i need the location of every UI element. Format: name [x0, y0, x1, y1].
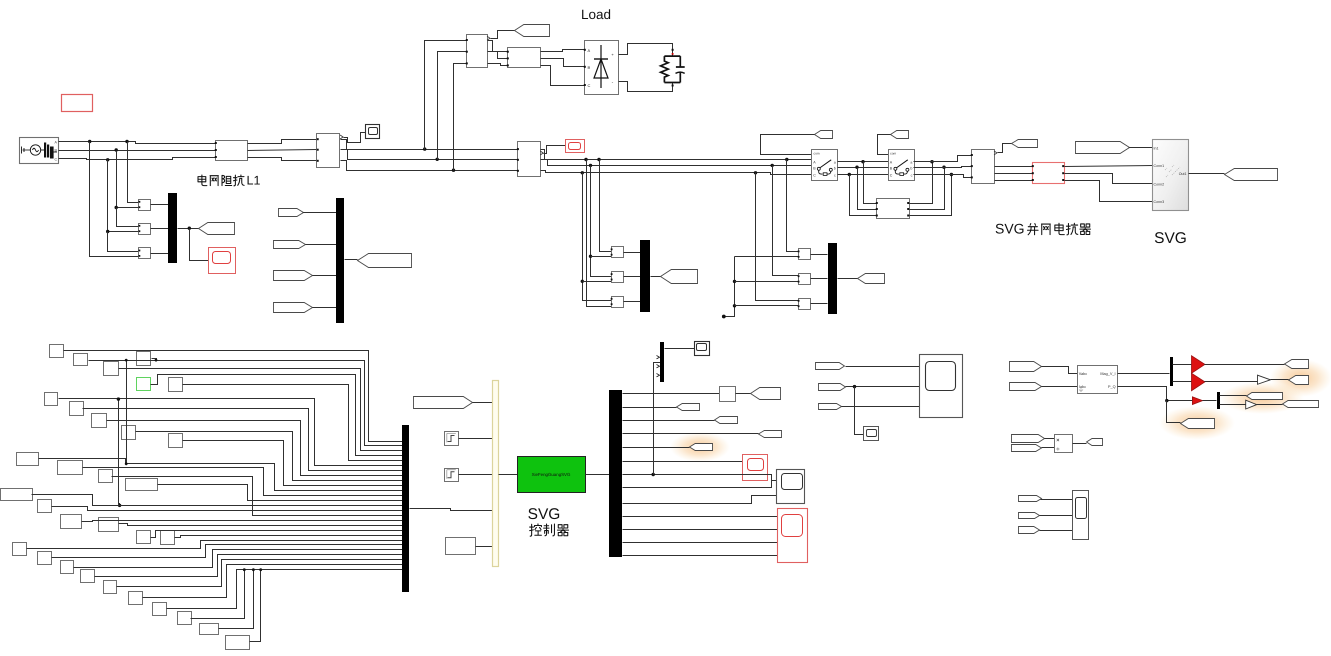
- three-phase V-I measurement block 2: [317, 134, 340, 168]
- wires from tags to mux3: [303, 212, 337, 214]
- wire B31 join bottom row: [250, 570, 261, 642]
- wire taps down to transformer: [864, 162, 877, 204]
- big mux bar (controller inputs): [402, 425, 409, 592]
- wire tap to VM2 group b: [591, 166, 612, 277]
- constant block B28: [153, 603, 167, 616]
- from tag display b: [1019, 513, 1040, 519]
- from tag breaker2 control: [891, 131, 909, 139]
- wires RLC to rectifier B: [541, 59, 585, 67]
- voltage measurement block V2b: [612, 272, 624, 283]
- three-phase V-I measurement block 3: [972, 150, 995, 184]
- wire breaker2 control: [878, 135, 891, 155]
- constant block B31: [226, 636, 250, 650]
- demux row2 wire: [623, 407, 677, 409]
- svg-text:XieFengGuangSVG: XieFengGuangSVG: [532, 472, 571, 477]
- wire from tag to bus bar: [473, 402, 493, 404]
- step source block 2: [445, 469, 459, 482]
- wire P_Q output down to small gain: [1118, 387, 1193, 401]
- highlight glow (orange) behind Goto tag group top-right: [1270, 359, 1331, 397]
- svg-text:a: a: [910, 161, 912, 165]
- wire phase A source to grid impedance: [59, 142, 216, 144]
- goto tag mux4: [858, 274, 885, 284]
- svg-text:A: A: [588, 48, 591, 53]
- constant block B3: [104, 362, 119, 376]
- wire mux2 output to goto tag: [651, 276, 661, 278]
- wire gain2 to white gain: [1205, 381, 1258, 383]
- goto tag gain1: [1285, 360, 1309, 369]
- constant block B20: [137, 531, 151, 544]
- wires VM3 outputs to mux4: [811, 254, 828, 256]
- scope5 (three input): [920, 355, 963, 418]
- wire phase C source to grid impedance: [59, 158, 216, 160]
- voltage measurement block V3c: [799, 299, 811, 310]
- voltage measurement block V2c: [612, 297, 624, 308]
- mini mux above demux: [660, 342, 664, 382]
- wires transformer right up to bus: [910, 162, 933, 204]
- wire step1 to bus: [459, 438, 493, 440]
- wire SVG Out1 to goto tag: [1189, 173, 1225, 175]
- svg-text:C: C: [588, 83, 591, 88]
- load branch V-I measurement block (mid): [518, 142, 541, 177]
- demux rows to red display block: [623, 516, 778, 518]
- wires reactor to SVG subsystem: [1065, 166, 1153, 167]
- scope1 (red): [209, 248, 236, 274]
- goto tag row5 (highlighted): [690, 444, 713, 451]
- wire demux5 to red gain2: [1173, 381, 1192, 383]
- wires VM2 outputs to mux2: [624, 252, 641, 254]
- wire rectifier + to RC load: [619, 44, 673, 57]
- svg-text:P_Q: P_Q: [1108, 385, 1116, 389]
- goto tag row1: [751, 388, 781, 400]
- from tag divide b: [1012, 445, 1042, 452]
- wires RLC to rectifier C: [541, 66, 585, 86]
- wire from tag to SVG In1: [1129, 147, 1153, 149]
- wire big mux output to signal bus: [410, 509, 493, 511]
- stub from B4 joining row2: [152, 359, 157, 361]
- goto tag row2: [677, 404, 700, 411]
- constant block B22: [13, 543, 27, 556]
- mux1 bar: [168, 193, 177, 263]
- highlight glow behind demux row5 tag: [670, 432, 730, 462]
- red gain triangle 1: [1192, 356, 1205, 374]
- breaker block 2: [889, 150, 915, 181]
- red annotation rectangle top-left: [62, 95, 93, 112]
- wires breaker1 to breaker2: [838, 161, 889, 163]
- wire mini mux to scope small: [665, 348, 695, 350]
- main bus wires to breaker1: [541, 150, 812, 160]
- scope white two-input: [777, 470, 805, 504]
- from tag scope5 c: [819, 404, 842, 410]
- constant block B18: [61, 515, 82, 529]
- wire gain1 to goto tag: [1205, 364, 1285, 366]
- svg-text:L1: L1: [247, 174, 261, 188]
- constant block B11: [169, 434, 183, 448]
- goto tag row1 demux6 (highlighted): [1247, 393, 1283, 400]
- white gain triangle 2: [1246, 400, 1257, 409]
- highlight glow behind gain/tag row 3: [1220, 382, 1304, 414]
- demux row7 wire with riser to mini mux: [623, 475, 777, 481]
- goto tag P_Q bottom (highlighted): [1181, 419, 1215, 429]
- wire B29 join bottom row: [191, 570, 245, 619]
- constant block controller: [446, 538, 476, 555]
- scope small (top of demux area): [695, 342, 710, 356]
- red gain triangle 2: [1192, 373, 1205, 391]
- svg-text:com: com: [890, 152, 896, 156]
- wire meas3 to goto tag: [998, 144, 1012, 153]
- svg-text:SVG: SVG: [1154, 230, 1187, 247]
- constant block B13: [58, 461, 83, 475]
- demux row5 wire: [623, 447, 690, 449]
- wires grid impedance to measurement2: [248, 140, 317, 144]
- goto tag row3: [715, 417, 738, 424]
- from tag controller input: [414, 397, 473, 409]
- goto tag divide: [1087, 439, 1103, 446]
- wire to red display: [544, 146, 566, 154]
- wire tap up to load measurement B: [438, 52, 467, 160]
- svg-text:b: b: [910, 167, 912, 171]
- svg-text:Conn3: Conn3: [1154, 200, 1165, 204]
- constant block B23: [38, 552, 52, 565]
- from tag group feeding mux3 (left of centre): [279, 209, 304, 217]
- diode rectifier block: [585, 41, 619, 95]
- wire to scope1: [190, 229, 209, 261]
- wire tap up to load measurement C: [454, 64, 467, 171]
- goto tag meas3: [1012, 140, 1038, 148]
- wire mux3 output: [345, 259, 358, 261]
- secondary net for VM3 trio: [735, 256, 799, 258]
- wires to display block: [1041, 499, 1073, 501]
- constant block B1: [50, 345, 64, 358]
- constant block B2: [74, 354, 88, 366]
- wire breaker1 control: [761, 135, 815, 155]
- demux6 thin bar: [1217, 392, 1220, 409]
- wire green block B5g row: [151, 375, 403, 456]
- goto tag load meas: [515, 25, 550, 37]
- svg-text:Conn1: Conn1: [1154, 164, 1165, 168]
- from tag divide a: [1012, 435, 1045, 443]
- wire white gain to goto tag2: [1271, 379, 1289, 381]
- from tag power block Iabc: [1010, 383, 1042, 391]
- step source block 1: [445, 432, 459, 446]
- wire rectifier - to RC load: [619, 82, 673, 92]
- svg-text:Vabc: Vabc: [1079, 372, 1087, 376]
- wire A tap down outer: [90, 142, 139, 257]
- from tag display c: [1019, 527, 1040, 534]
- wire load meas to goto tag: [491, 31, 515, 39]
- svg-text:Out1: Out1: [1179, 172, 1187, 176]
- wire tap up to load measurement A: [425, 41, 467, 150]
- svg-text:c: c: [834, 174, 836, 178]
- svg-text:com: com: [814, 152, 820, 156]
- voltage measurement block V1b: [139, 224, 151, 235]
- goto tag row4: [759, 431, 782, 438]
- label 电网阻抗L1: [198, 175, 207, 186]
- wire bus B meas2: [341, 150, 518, 160]
- wire divide to goto tag: [1073, 443, 1087, 445]
- demux bar (controller outputs): [609, 390, 622, 557]
- wire P_Q branch down to tag: [1167, 401, 1181, 423]
- constant block B5g: [137, 378, 151, 391]
- goto tag mux3: [358, 254, 412, 268]
- constant block B25: [81, 570, 95, 583]
- wires to divide block: [1045, 438, 1055, 440]
- white gain triangle (row2): [1258, 375, 1271, 384]
- wire tap to VM2 group c: [583, 173, 612, 301]
- svg-text:In1: In1: [1154, 146, 1159, 150]
- wire step2 to bus: [459, 474, 493, 476]
- svg-text:SVG: SVG: [995, 221, 1025, 237]
- goto tag Vabc2: [661, 270, 698, 284]
- wire bus A meas2 to load-tap: [341, 140, 518, 150]
- wires VM outputs to mux1: [151, 204, 169, 206]
- svg-text:b: b: [834, 167, 836, 171]
- junction dots bus to load rectifier branch: [423, 147, 426, 150]
- goto tag Vabc1: [199, 223, 235, 235]
- voltage measurement block V2a: [612, 247, 624, 258]
- from tag scope5 a: [816, 363, 845, 370]
- constant block B16: [1, 489, 33, 501]
- demux row9 wire to scope white p2: [623, 496, 777, 504]
- constant block B6: [169, 378, 183, 392]
- wires constants to big mux (direct rows with small steps): [32, 495, 403, 506]
- wire gain3 to demux6: [1203, 400, 1217, 402]
- mux4 bar: [828, 243, 837, 314]
- signal bus bar (cream): [493, 381, 499, 567]
- demux5 thin bar: [1170, 357, 1173, 386]
- diode symbol: [600, 45, 602, 88]
- SVG grid reactor block (red): [1033, 163, 1065, 184]
- svg-text:a: a: [834, 161, 836, 165]
- wires breaker2 to measurement3: [914, 156, 972, 162]
- constant block B26: [104, 581, 117, 594]
- from tag display a: [1019, 496, 1042, 502]
- voltage measurement block V1a: [139, 200, 151, 211]
- from tag power block Vabc: [1010, 362, 1042, 372]
- display block (right bottom): [1073, 491, 1089, 540]
- demux row4 wire: [623, 433, 759, 435]
- constant block B8: [70, 402, 84, 416]
- svg-text:SVG: SVG: [528, 506, 561, 523]
- constant block B30: [200, 624, 219, 635]
- junction dots mid-bus taps: [597, 158, 600, 161]
- wire mux4 output: [838, 278, 858, 280]
- wire Mag_V_I output to demux5: [1118, 373, 1170, 375]
- voltage measurement block V3b: [799, 274, 811, 285]
- svg-text:Iabc: Iabc: [1079, 385, 1086, 389]
- red gain triangle 3 (small): [1192, 397, 1202, 405]
- constant block B7: [45, 393, 58, 406]
- svg-text:Mag_V_I: Mag_V_I: [1100, 372, 1115, 376]
- trunk vertical (B7 row down to B16 row): [119, 400, 120, 506]
- wire bus C meas2: [341, 161, 518, 171]
- wire B12 with jog: [39, 459, 403, 491]
- voltage measurement block V1c: [139, 248, 151, 259]
- wire C tap down: [108, 160, 139, 232]
- breaker block 1: [812, 150, 838, 181]
- unit block row1: [720, 387, 736, 402]
- wire B30 join bottom row: [219, 570, 254, 629]
- mux2 bar: [640, 240, 650, 312]
- wire demux6 row2 to white gain2: [1220, 404, 1246, 406]
- from tag scope5 b: [819, 384, 846, 391]
- wires constants to big mux (top staircase): [64, 351, 403, 442]
- mux3 bar: [336, 198, 344, 323]
- wire constant to bus: [476, 546, 493, 548]
- from tag SVG In1: [1076, 142, 1130, 154]
- wire mux1 output: [178, 228, 199, 230]
- svg-text:B: B: [588, 65, 591, 70]
- constant block B12: [17, 453, 39, 466]
- highlight glow behind bottom-left tag of gain group: [1159, 406, 1235, 440]
- junction dots on source phases: [88, 140, 91, 143]
- wire meas2 signal to scope2: [344, 133, 366, 143]
- svg-text:C: C: [813, 174, 816, 178]
- load V-I measurement block: [467, 35, 488, 68]
- wire A tap down to U-V measurement 1: [128, 142, 139, 203]
- constant block B21: [161, 531, 175, 545]
- constant block B29: [178, 612, 192, 625]
- wire demux5 to red gain1: [1173, 364, 1192, 366]
- demux row3 wire: [623, 420, 715, 422]
- svg-text:Load: Load: [581, 7, 611, 22]
- goto tag gain2 (highlighted): [1289, 376, 1309, 385]
- wire taps from bus down to VM3 trio: [754, 171, 757, 174]
- constant block B19: [99, 518, 119, 532]
- wires constants to big mux (bottom staircase): [52, 545, 403, 558]
- wire to goto tag4: [1257, 404, 1283, 406]
- power measurement block Mag_V_I P_Q: [1078, 366, 1118, 394]
- scope2: [366, 125, 380, 139]
- wire phase B source to grid impedance: [59, 150, 216, 152]
- constant block B24: [61, 561, 74, 574]
- constant block B17: [38, 500, 52, 513]
- wires meas3 to SVG reactor: [995, 166, 1033, 168]
- red display (controller outputs): [778, 509, 808, 563]
- from tag breaker1 control: [815, 131, 833, 139]
- constant block B4: [137, 352, 151, 366]
- scope6 small: [864, 427, 879, 441]
- wire junction down to small scope6: [855, 387, 864, 435]
- three-phase source block: [20, 138, 59, 164]
- scope red (controller): [743, 455, 768, 481]
- SVG controller block (green): [518, 457, 586, 493]
- constant block B14: [99, 470, 113, 483]
- parallel RC load: [664, 56, 680, 82]
- demux row6 wire to red scope: [623, 461, 743, 463]
- red display (load): [566, 140, 585, 153]
- constant block B9: [92, 414, 107, 428]
- wire controller to demux: [586, 474, 610, 476]
- demux row1 wire to gain block: [623, 393, 720, 395]
- svg-text:c: c: [911, 174, 913, 178]
- constant block B10: [122, 426, 136, 440]
- demux row8 wire to scope white: [623, 481, 772, 488]
- wire demux6 row1 to tag: [1220, 395, 1247, 397]
- wire bus to controller: [499, 474, 518, 476]
- wire tap to VM2a: [600, 160, 612, 252]
- wire row1 to tag: [736, 393, 751, 395]
- svg-text:×: ×: [1056, 438, 1060, 444]
- svg-text:C: C: [55, 157, 58, 161]
- label SVG 控制器 line2: [530, 524, 542, 536]
- wires from tags to scope5: [846, 366, 920, 368]
- wire B tap down: [117, 151, 139, 208]
- wires to power block: [1042, 367, 1078, 374]
- transformer block below breakers: [877, 199, 910, 219]
- svg-text:C: C: [890, 174, 893, 178]
- wires RLC to rectifier A: [541, 50, 585, 52]
- wires load meas to RLC branch block: [488, 41, 508, 52]
- grid impedance block 电网阻抗L1: [216, 141, 248, 161]
- wire tap outer to VM3b: [587, 160, 612, 307]
- three-phase series RLC branch block: [508, 48, 541, 68]
- svg-text:Conn2: Conn2: [1154, 182, 1165, 186]
- branch vertical (B2 row down to B12 row): [126, 361, 128, 464]
- divide block: [1055, 435, 1073, 453]
- constant block B15: [126, 479, 158, 491]
- goto tag SVG output: [1225, 169, 1278, 181]
- constant block B27: [129, 592, 143, 605]
- voltage measurement block V3a: [799, 249, 811, 260]
- goto tag gain4: [1283, 401, 1319, 408]
